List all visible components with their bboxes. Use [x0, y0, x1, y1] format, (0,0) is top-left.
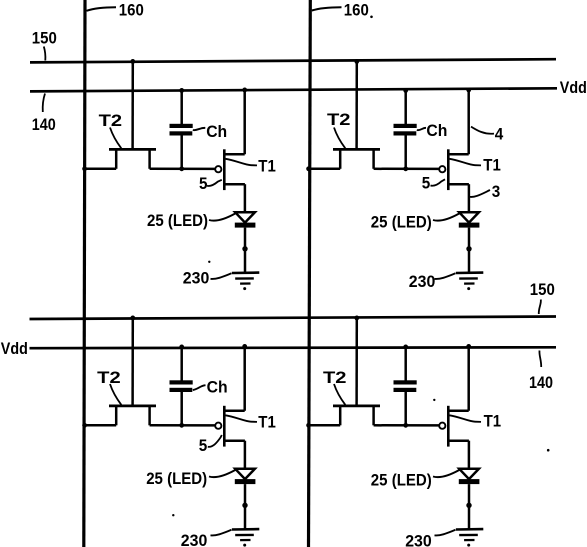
wire LED cathode down (row 1, col 1) [244, 228, 247, 249]
wire T1 drain to Vdd (row 2, col 2) [467, 346, 470, 411]
leader 230 (row 2, col 1) [211, 530, 232, 536]
junction data-line/T2 (row 1, col 1) [82, 166, 87, 171]
transistor T2 gate bar (row 2, col 2) [333, 404, 380, 407]
leader Ch (row 2, col 1) [193, 385, 206, 390]
capacitor Ch bottom wire (row 2, col 2) [404, 392, 407, 426]
svg-text:5: 5 [199, 436, 208, 455]
junction Vdd/T1-drain (row 1, col 2) [466, 88, 471, 93]
ground 230 middle line (row 1, col 2) [459, 277, 478, 280]
wire T1 source to LED (row 2, col 2) [468, 441, 471, 469]
junction Vdd/T1-drain (row 1, col 1) [242, 88, 247, 93]
junction data-line/T2 (row 2, col 1) [82, 423, 87, 428]
leader T2 (row 2, col 1) [110, 384, 121, 405]
transistor T2 left leg (row 1, col 2) [339, 149, 342, 168]
wire to ground 230 (row 2, col 1) [244, 505, 247, 529]
wire to ground 230 (row 1, col 1) [244, 249, 247, 273]
wire to ground 230 (row 2, col 2) [468, 505, 471, 529]
transistor T1 gate bar (row 1, col 1) [223, 149, 226, 190]
speck [370, 15, 373, 18]
svg-text:Vdd: Vdd [560, 78, 587, 97]
leader T1 (row 1, col 2) [450, 159, 482, 166]
leader Ch (row 1, col 1) [193, 128, 206, 130]
speck [208, 261, 210, 263]
ground 230 dot (row 2, col 2) [467, 544, 470, 547]
leader 5 (row 2, col 1) [208, 435, 222, 447]
wire T1 drain to Vdd (row 2, col 1) [243, 346, 246, 411]
wire T2 source to data line (row 1, col 2) [308, 168, 340, 171]
leader 25 (LED) (row 1, col 2) [433, 214, 459, 221]
junction scan/T2-gate (row 1, col 1) [130, 59, 135, 64]
wire LED cathode down (row 2, col 1) [244, 484, 247, 505]
transistor T2 left leg (row 2, col 2) [339, 406, 342, 425]
svg-text:T2: T2 [327, 110, 351, 129]
transistor T1 drain arm (row 1, col 2) [448, 153, 468, 156]
svg-text:230: 230 [181, 531, 208, 547]
LED 25 cathode bar (row 2, col 2) [459, 479, 480, 484]
transistor T2 left leg (row 1, col 1) [115, 149, 118, 168]
wire T2 gate from scan line (row 2, col 1) [131, 318, 134, 406]
leader 150 row1 [44, 47, 46, 61]
ground 230 bottom line (row 1, col 1) [240, 282, 250, 284]
leader T2 (row 1, col 1) [110, 128, 121, 149]
leader 25 (LED) (row 1, col 1) [209, 214, 235, 221]
junction scan/T2-gate (row 1, col 2) [354, 59, 359, 64]
capacitor Ch bottom plate (row 2, col 2) [394, 388, 417, 392]
capacitor Ch top wire (row 1, col 2) [404, 90, 407, 124]
ground 230 middle line (row 1, col 1) [235, 277, 254, 280]
wire T1 source to LED (row 1, col 2) [468, 184, 471, 212]
junction scan/T2-gate (row 2, col 1) [130, 316, 135, 321]
svg-text:230: 230 [405, 531, 432, 547]
leader 230 (row 1, col 2) [435, 273, 456, 279]
svg-text:150: 150 [32, 28, 57, 47]
scan line 150 (row 1) [30, 59, 556, 62]
svg-text:T1: T1 [258, 156, 276, 175]
ground 230 bottom line (row 1, col 2) [464, 282, 474, 284]
junction node5/capacitor (row 2, col 2) [403, 423, 408, 428]
capacitor Ch top plate (row 1, col 2) [394, 124, 417, 128]
leader T2 (row 2, col 2) [334, 384, 345, 405]
junction Vdd/capacitor (row 2, col 2) [403, 345, 408, 350]
svg-text:4: 4 [495, 125, 504, 144]
junction LED/ground node (row 1, col 2) [466, 246, 471, 251]
LED 25 cathode bar (row 1, col 1) [235, 223, 256, 228]
wire T2 gate from scan line (row 1, col 2) [355, 61, 358, 149]
wire T1 source to LED (row 2, col 1) [244, 441, 247, 469]
leader T1 (row 2, col 2) [450, 415, 482, 422]
wire T2 gate from scan line (row 1, col 1) [131, 61, 134, 149]
ground 230 middle line (row 2, col 2) [459, 534, 478, 537]
junction node5/capacitor (row 1, col 2) [403, 166, 408, 171]
capacitor Ch bottom plate (row 2, col 1) [170, 388, 193, 392]
transistor T2 right leg (row 2, col 1) [148, 406, 151, 425]
junction Vdd/capacitor (row 1, col 2) [403, 88, 408, 93]
ground 230 dot (row 1, col 2) [467, 287, 470, 290]
LED 25 anode triangle (row 1, col 2) [459, 212, 479, 222]
svg-text:T1: T1 [483, 156, 501, 175]
transistor T1 drain arm (row 2, col 2) [448, 410, 468, 413]
junction LED/ground node (row 2, col 2) [466, 503, 471, 508]
transistor T1 source arm (row 1, col 2) [448, 183, 469, 186]
speck [547, 449, 550, 452]
svg-text:T1: T1 [258, 412, 276, 431]
junction node5/capacitor (row 1, col 1) [179, 166, 184, 171]
wire T2 source to data line (row 2, col 1) [84, 424, 116, 427]
transistor T1 source arm (row 1, col 1) [224, 183, 245, 186]
wire T2 drain to node 5 (row 2, col 2) [374, 424, 439, 427]
svg-text:T2: T2 [99, 111, 123, 130]
transistor T1 gate circle (row 1, col 2) [439, 166, 445, 172]
leader 3 [469, 190, 490, 197]
leader 160 right [312, 7, 342, 10]
Vdd line 140 (row 1) [30, 88, 557, 91]
svg-text:25 (LED): 25 (LED) [147, 211, 208, 230]
svg-text:230: 230 [409, 272, 436, 291]
svg-text:5: 5 [199, 174, 208, 193]
LED 25 anode triangle (row 2, col 1) [235, 469, 255, 479]
junction data-line/T2 (row 2, col 2) [306, 423, 311, 428]
wire T2 gate from scan line (row 2, col 2) [355, 318, 358, 406]
capacitor Ch top wire (row 2, col 1) [180, 347, 183, 381]
leader 230 (row 1, col 1) [211, 273, 232, 279]
capacitor Ch top plate (row 2, col 2) [394, 380, 417, 384]
svg-text:3: 3 [492, 182, 501, 201]
transistor T2 right leg (row 1, col 2) [372, 149, 375, 168]
transistor T2 right leg (row 2, col 2) [372, 406, 375, 425]
junction scan/T2-gate (row 2, col 2) [354, 316, 359, 321]
transistor T1 gate bar (row 1, col 2) [447, 149, 450, 190]
LED 25 anode triangle (row 2, col 2) [459, 469, 479, 479]
svg-text:T1: T1 [484, 412, 502, 431]
leader 4 [471, 127, 494, 134]
svg-text:230: 230 [183, 269, 210, 288]
leader 230 (row 2, col 2) [435, 530, 456, 536]
wire T2 source to data line (row 2, col 2) [308, 424, 340, 427]
leader 140 row1 [43, 94, 45, 113]
transistor T1 gate circle (row 2, col 1) [215, 423, 221, 429]
capacitor Ch bottom wire (row 1, col 1) [180, 135, 183, 169]
capacitor Ch top wire (row 2, col 2) [404, 347, 407, 381]
capacitor Ch bottom wire (row 1, col 2) [404, 135, 407, 169]
wire T2 drain to node 5 (row 2, col 1) [150, 424, 215, 427]
svg-text:160: 160 [344, 0, 369, 19]
transistor T1 gate bar (row 2, col 2) [447, 406, 450, 447]
junction node5/capacitor (row 2, col 1) [179, 423, 184, 428]
speck [433, 399, 435, 401]
junction Vdd/capacitor (row 1, col 1) [179, 88, 184, 93]
transistor T1 drain arm (row 1, col 1) [224, 153, 244, 156]
junction LED/ground node (row 1, col 1) [242, 246, 247, 251]
transistor T1 source arm (row 2, col 1) [224, 439, 245, 442]
ground 230 top line (row 1, col 1) [232, 271, 259, 274]
leader T2 (row 1, col 2) [334, 128, 345, 149]
capacitor Ch top plate (row 2, col 1) [170, 380, 193, 384]
junction data-line/T2 (row 1, col 2) [306, 166, 311, 171]
junction Vdd/T1-drain (row 2, col 2) [466, 344, 471, 349]
transistor T1 drain arm (row 2, col 1) [224, 410, 244, 413]
svg-text:Ch: Ch [207, 378, 228, 397]
leader 5 (row 1, col 1) [207, 180, 222, 186]
svg-text:T2: T2 [97, 368, 121, 387]
svg-text:25 (LED): 25 (LED) [371, 212, 432, 231]
transistor T1 gate circle (row 1, col 1) [215, 166, 221, 172]
junction LED/ground node (row 2, col 1) [242, 503, 247, 508]
transistor T2 gate bar (row 2, col 1) [109, 404, 156, 407]
wire T1 drain to Vdd (row 1, col 1) [243, 90, 246, 155]
data line 160 (column 1) [84, 0, 85, 547]
ground 230 bottom line (row 2, col 1) [240, 539, 250, 541]
leader T1 (row 1, col 1) [226, 159, 258, 166]
leader 5 (row 1, col 2) [431, 179, 446, 185]
LED 25 anode triangle (row 1, col 1) [235, 212, 255, 222]
leader 160 left [87, 7, 117, 11]
svg-text:5: 5 [422, 173, 431, 192]
svg-text:140: 140 [529, 373, 553, 392]
capacitor Ch top wire (row 1, col 1) [180, 90, 183, 124]
capacitor Ch bottom plate (row 1, col 2) [394, 131, 417, 135]
ground 230 dot (row 2, col 1) [243, 544, 246, 547]
speck [172, 514, 174, 516]
transistor T1 gate bar (row 2, col 1) [223, 406, 226, 447]
wire LED cathode down (row 1, col 2) [468, 228, 471, 249]
leader 140 row2 [539, 351, 541, 368]
svg-text:Ch: Ch [426, 121, 447, 140]
capacitor Ch bottom plate (row 1, col 1) [170, 131, 193, 135]
transistor T1 source arm (row 2, col 2) [448, 439, 469, 442]
svg-text:25 (LED): 25 (LED) [371, 470, 432, 489]
data line 160 (column 2) [309, 0, 311, 547]
leader 25 (LED) (row 2, col 2) [433, 470, 459, 477]
transistor T2 right leg (row 1, col 1) [148, 149, 151, 168]
wire to ground 230 (row 1, col 2) [468, 249, 471, 273]
wire LED cathode down (row 2, col 2) [468, 484, 471, 505]
junction Vdd/T1-drain (row 2, col 1) [242, 344, 247, 349]
wire T1 drain to Vdd (row 1, col 2) [467, 90, 470, 155]
svg-text:Vdd: Vdd [1, 339, 28, 358]
wire T2 drain to node 5 (row 1, col 2) [374, 168, 439, 171]
svg-text:160: 160 [119, 1, 144, 20]
leader T1 (row 2, col 1) [226, 415, 258, 422]
svg-text:Ch: Ch [206, 122, 227, 141]
ground 230 dot (row 1, col 1) [243, 287, 246, 290]
leader 25 (LED) (row 2, col 1) [209, 470, 235, 477]
ground 230 middle line (row 2, col 1) [235, 534, 254, 537]
ground 230 top line (row 1, col 2) [456, 271, 483, 274]
svg-text:25 (LED): 25 (LED) [146, 469, 207, 488]
scan line 150 (row 2) [30, 317, 557, 320]
transistor T2 gate bar (row 1, col 2) [333, 148, 380, 151]
transistor T2 left leg (row 2, col 1) [115, 406, 118, 425]
wire T1 source to LED (row 1, col 1) [244, 184, 247, 212]
ground 230 bottom line (row 2, col 2) [464, 539, 474, 541]
LED 25 cathode bar (row 2, col 1) [235, 479, 256, 484]
leader Ch (row 1, col 2) [417, 128, 426, 130]
junction Vdd/capacitor (row 2, col 1) [179, 345, 184, 350]
wire T2 source to data line (row 1, col 1) [84, 168, 116, 171]
leader 150 row2 [539, 300, 541, 315]
transistor T2 gate bar (row 1, col 1) [109, 148, 156, 151]
transistor T1 gate circle (row 2, col 2) [439, 423, 445, 429]
capacitor Ch bottom wire (row 2, col 1) [180, 392, 183, 426]
ground 230 top line (row 2, col 1) [232, 528, 259, 531]
LED 25 cathode bar (row 1, col 2) [459, 223, 480, 228]
Vdd line 140 (row 2) [30, 346, 557, 350]
ground 230 top line (row 2, col 2) [456, 528, 483, 531]
capacitor Ch top plate (row 1, col 1) [170, 124, 193, 128]
svg-text:140: 140 [32, 115, 56, 134]
svg-text:150: 150 [530, 280, 555, 299]
wire T2 drain to node 5 (row 1, col 1) [150, 168, 215, 171]
